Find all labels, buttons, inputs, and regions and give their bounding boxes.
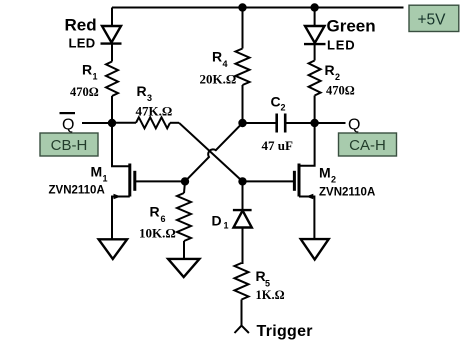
wire Q node down to M2 drain <box>299 123 315 166</box>
svg-text:R: R <box>150 204 160 220</box>
svg-text:M: M <box>91 164 103 180</box>
wire M2 source <box>299 197 314 240</box>
svg-text:Trigger: Trigger <box>257 323 313 340</box>
svg-text:470Ω: 470Ω <box>326 83 355 97</box>
svg-text:20K.Ω: 20K.Ω <box>200 72 237 87</box>
wire Qbar stub <box>82 122 112 124</box>
label M2 designator <box>319 165 336 185</box>
svg-text:+5V: +5V <box>417 12 446 29</box>
node top rail Green LED junction <box>311 4 317 10</box>
svg-text:1K.Ω: 1K.Ω <box>256 288 285 302</box>
LED green <box>304 26 326 44</box>
svg-text:47 uF: 47 uF <box>262 138 293 153</box>
svg-text:LED: LED <box>327 38 355 53</box>
ground under R6 <box>168 259 199 277</box>
svg-text:47K.Ω: 47K.Ω <box>136 104 173 119</box>
node M1 gate / R6 junction <box>182 178 188 184</box>
wire Qbar node down to M1 drain <box>112 123 130 166</box>
label R2 designator <box>325 62 341 82</box>
wire D1 to R5 <box>242 228 243 264</box>
node top rail R4 junction <box>239 4 245 10</box>
svg-text:10K.Ω: 10K.Ω <box>139 226 176 241</box>
svg-text:Q: Q <box>62 117 74 134</box>
M1 source arrow <box>114 194 122 199</box>
node Q junction <box>311 120 317 126</box>
svg-text:R: R <box>212 49 222 65</box>
label D1 designator <box>212 213 229 231</box>
wire Q stub <box>315 122 346 124</box>
resistor R1 <box>106 62 118 97</box>
label R3 designator <box>137 83 153 103</box>
wire left vertical from rail to Red LED <box>111 8 113 27</box>
svg-text:D: D <box>212 213 222 229</box>
svg-text:CB-H: CB-H <box>51 137 88 154</box>
node Qbar junction <box>109 120 115 126</box>
svg-text:3: 3 <box>147 93 152 103</box>
label Qbar <box>60 112 76 134</box>
svg-text:R: R <box>82 62 92 78</box>
wire C2 right lead to Q node <box>285 122 314 124</box>
wire M2 gate to node <box>243 180 295 182</box>
resistor R3 <box>112 122 136 124</box>
svg-text:470Ω: 470Ω <box>70 85 99 99</box>
label CB-H box <box>40 133 98 156</box>
resistor R5 <box>235 263 249 300</box>
ground under M2 <box>301 239 329 259</box>
svg-text:1: 1 <box>224 221 229 231</box>
label R1 designator <box>82 62 98 82</box>
capacitor C2 <box>277 114 286 133</box>
diode D1 <box>233 210 252 227</box>
transistor M2 <box>294 164 299 197</box>
wire Red LED to R1 <box>111 44 113 62</box>
wire M1 gate to node <box>135 180 185 182</box>
label M1 designator <box>91 164 108 184</box>
svg-text:2: 2 <box>281 103 286 113</box>
svg-text:R: R <box>137 83 147 99</box>
transistor M1 <box>130 164 135 197</box>
node M2 gate / D1 junction <box>239 178 245 184</box>
trigger terminal fork <box>235 326 249 333</box>
wire diagonal R4 bottom to M1 gate node (with hop) <box>185 123 243 181</box>
svg-text:ZVN2110A: ZVN2110A <box>49 185 105 197</box>
resistor R4 <box>236 49 250 86</box>
label R4 designator <box>212 49 228 70</box>
svg-text:R: R <box>325 62 335 78</box>
wire node to R6 <box>184 181 185 193</box>
wire M1 source <box>112 197 130 240</box>
svg-text:6: 6 <box>161 214 166 224</box>
svg-text:4: 4 <box>223 59 228 69</box>
M2 source arrow <box>306 194 314 199</box>
label CA-H box <box>339 133 397 156</box>
wire R2 to Q node <box>314 96 316 124</box>
+5V power box <box>409 5 459 31</box>
svg-text:ZVN2110A: ZVN2110A <box>319 187 375 199</box>
label R6 designator <box>150 204 166 225</box>
svg-text:1: 1 <box>103 174 108 184</box>
wire Green LED to R2 <box>314 44 316 60</box>
resistor R6 <box>177 193 191 241</box>
ground under M1 <box>99 239 128 259</box>
wire C2 left lead <box>243 122 276 124</box>
svg-text:Q: Q <box>348 117 360 134</box>
wire rail to R4 <box>242 8 244 49</box>
svg-text:5: 5 <box>265 279 270 289</box>
wire R4 to C2 node <box>242 85 244 123</box>
wire top rail <box>112 7 404 9</box>
node R4 bottom / C2 junction <box>239 120 245 126</box>
wire R6 to ground <box>183 241 185 259</box>
svg-text:Red: Red <box>65 16 97 35</box>
wire node to D1 <box>242 181 244 210</box>
svg-text:M: M <box>319 165 331 181</box>
label C2 designator <box>271 94 286 113</box>
wire diagonal R3 to M2 gate node <box>179 123 243 182</box>
label R5 designator <box>256 268 271 289</box>
wire R5 to trigger terminal <box>241 300 243 326</box>
svg-text:1: 1 <box>93 72 98 82</box>
svg-text:2: 2 <box>331 175 336 185</box>
label Red LED <box>65 16 97 51</box>
wire R1 to Qbar node <box>111 96 113 123</box>
label Green LED <box>327 17 376 53</box>
LED red <box>101 26 122 44</box>
svg-text:Green: Green <box>327 17 376 36</box>
resistor R2 <box>309 61 321 96</box>
svg-text:C: C <box>271 94 281 110</box>
svg-text:2: 2 <box>335 72 340 82</box>
wire rail to Green LED <box>314 8 316 27</box>
svg-text:LED: LED <box>69 36 96 51</box>
svg-text:CA-H: CA-H <box>349 137 386 154</box>
